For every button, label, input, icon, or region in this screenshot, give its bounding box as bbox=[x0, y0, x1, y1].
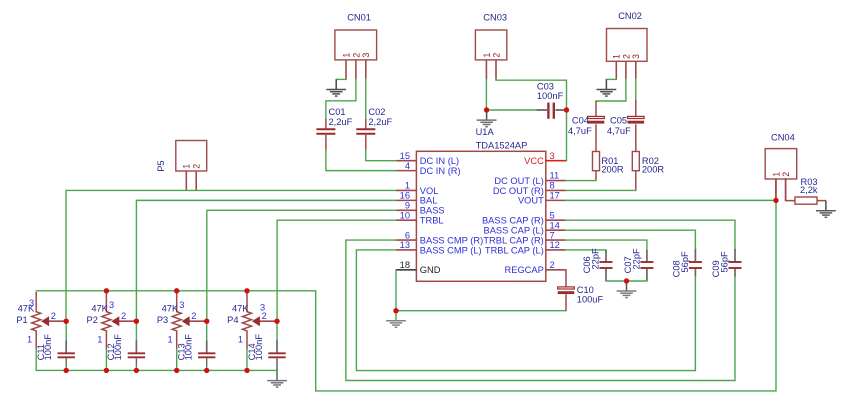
node junction C13 gnd bbox=[204, 368, 209, 373]
U1A pin 10 TRBL stub bbox=[396, 219, 416, 221]
label P5 bbox=[156, 160, 166, 171]
U1A pin number 12 bbox=[550, 240, 560, 250]
svg-text:3: 3 bbox=[109, 300, 114, 310]
U1A pin 6 BASS CMP (R) stub bbox=[396, 239, 416, 241]
U1A pin name DC OUT (L) bbox=[494, 176, 543, 186]
svg-text:56pF: 56pF bbox=[680, 251, 690, 273]
svg-text:C10: C10 bbox=[577, 285, 594, 295]
wire gnd to C10 bbox=[396, 310, 566, 312]
U1A pin 1 VOL stub bbox=[396, 189, 416, 191]
label C08 bbox=[671, 260, 681, 277]
label 47K P2 bbox=[91, 303, 108, 313]
CN04 pin 2 lead bbox=[785, 179, 787, 201]
CN02 pin 1 lead bbox=[615, 61, 617, 79]
ground at CN01 bbox=[326, 79, 346, 96]
svg-text:2,2uF: 2,2uF bbox=[329, 117, 353, 127]
U1A pin 9 BASS stub bbox=[396, 209, 416, 211]
svg-text:200R: 200R bbox=[601, 164, 624, 174]
svg-text:CN03: CN03 bbox=[483, 12, 507, 22]
svg-text:2,2uF: 2,2uF bbox=[368, 117, 392, 127]
svg-text:BASS CAP (R): BASS CAP (R) bbox=[482, 216, 544, 226]
svg-text:22pF: 22pF bbox=[591, 248, 601, 270]
capacitor C04 bbox=[588, 116, 605, 151]
svg-text:9: 9 bbox=[405, 201, 410, 211]
U1A pin name DC OUT (R) bbox=[493, 186, 544, 196]
value 4,7uF bbox=[607, 126, 631, 136]
potentiometer P4 bbox=[243, 292, 278, 349]
label 47K P3 bbox=[162, 303, 179, 313]
svg-text:1: 1 bbox=[168, 334, 173, 344]
U1A pin 13 BASS CMP (L) stub bbox=[396, 249, 416, 251]
wire CN03 pin1 down bbox=[485, 79, 487, 110]
P2 bottom wire bbox=[105, 349, 107, 370]
wire C01 to pin 4 bbox=[326, 150, 396, 171]
U1A pin number 17 bbox=[550, 191, 560, 201]
CN01 pin 3 lead bbox=[365, 60, 367, 80]
svg-text:BASS CAP (L): BASS CAP (L) bbox=[484, 225, 544, 235]
svg-text:11: 11 bbox=[550, 171, 560, 181]
svg-text:100nF: 100nF bbox=[254, 334, 264, 361]
svg-text:DC IN (L): DC IN (L) bbox=[420, 156, 459, 166]
svg-text:7: 7 bbox=[550, 230, 555, 240]
value 200R bbox=[601, 164, 624, 174]
U1A pin 8 DC OUT (R) stub bbox=[546, 189, 566, 191]
U1A pin 2 REGCAP stub bbox=[546, 269, 566, 271]
CN04 pin1 lead to node bbox=[775, 179, 777, 200]
U1A pin 18 GND stub bbox=[396, 269, 416, 271]
wire CN01 pin1 to ground bbox=[336, 78, 346, 80]
P1 pin 1 label bbox=[27, 334, 32, 344]
svg-text:2: 2 bbox=[191, 311, 196, 321]
potentiometer P3 bbox=[172, 292, 207, 349]
ground at R03 bbox=[816, 201, 836, 218]
svg-text:BASS: BASS bbox=[420, 206, 445, 216]
svg-text:2: 2 bbox=[121, 311, 126, 321]
label R01 bbox=[601, 156, 618, 166]
connector CN03 box bbox=[475, 30, 506, 60]
U1A pin 15 DC IN (L) stub bbox=[396, 160, 416, 162]
P2 pin 1 label bbox=[97, 334, 102, 344]
U1A pin number 16 bbox=[400, 191, 410, 201]
svg-text:C02: C02 bbox=[368, 107, 385, 117]
CN01 pin number 1 bbox=[341, 53, 351, 58]
wire CN01 pin2 to C01 bbox=[326, 79, 356, 120]
wire pin 8 to R02 bbox=[566, 189, 636, 191]
P4 pin 3 label bbox=[260, 303, 265, 313]
svg-text:2: 2 bbox=[621, 54, 631, 59]
wire pin2 REGCAP to C10 bbox=[565, 270, 567, 287]
CN03 pin 1 lead bbox=[485, 60, 487, 80]
wire C06-C07 gnd bbox=[606, 280, 647, 282]
value TDA1524AP bbox=[476, 140, 528, 150]
svg-text:1: 1 bbox=[341, 53, 351, 58]
node junction C11 gnd bbox=[63, 368, 68, 373]
svg-text:3: 3 bbox=[179, 300, 184, 310]
label R02 bbox=[642, 156, 659, 166]
label C10 bbox=[577, 285, 594, 295]
svg-text:12: 12 bbox=[550, 240, 560, 250]
wire C02 to pin 15 bbox=[366, 150, 396, 161]
svg-text:VCC: VCC bbox=[524, 156, 544, 166]
capacitor C08 bbox=[689, 249, 702, 277]
svg-text:C05: C05 bbox=[610, 116, 627, 126]
capacitor C09 bbox=[729, 249, 742, 277]
node junction pot top bbox=[244, 288, 249, 293]
capacitor C11 bbox=[58, 341, 75, 367]
svg-text:TRBL: TRBL bbox=[420, 216, 444, 226]
U1A pin number 14 bbox=[550, 220, 560, 230]
CN04 pin2 to R03 bbox=[786, 179, 795, 201]
svg-text:15: 15 bbox=[400, 151, 410, 161]
P3 pin 1 label bbox=[168, 334, 173, 344]
P5 pin 1 lead bbox=[185, 171, 187, 191]
svg-text:DC OUT (R): DC OUT (R) bbox=[493, 186, 544, 196]
label C09 bbox=[711, 260, 721, 277]
P1 pin 2 label bbox=[51, 311, 56, 321]
U1A pin name BASS CMP (R) bbox=[420, 235, 483, 245]
U1A pin 7 TRBL CAP (R) stub bbox=[546, 239, 566, 241]
label CN03 bbox=[483, 12, 507, 22]
wire wiper to C14 bbox=[276, 321, 278, 341]
label C06 bbox=[582, 256, 592, 273]
wire pin 5 to C09 bbox=[566, 220, 735, 249]
wire pin 6 to C09 bottom bbox=[346, 240, 735, 380]
P5 pin number 2 bbox=[192, 164, 202, 169]
svg-text:14: 14 bbox=[550, 220, 560, 230]
svg-text:TDA1524AP: TDA1524AP bbox=[476, 140, 528, 150]
node junction C12 gnd bbox=[134, 368, 139, 373]
U1A pin name DC IN (R) bbox=[420, 166, 461, 176]
svg-text:8: 8 bbox=[550, 181, 555, 191]
U1A pin name BASS CAP (R) bbox=[482, 216, 544, 226]
svg-text:1: 1 bbox=[405, 181, 410, 191]
wire BAL net bbox=[136, 200, 396, 321]
svg-text:CN04: CN04 bbox=[771, 133, 795, 143]
wire TRBL net bbox=[277, 220, 396, 321]
P2 pin 3 label bbox=[109, 300, 114, 310]
svg-text:2: 2 bbox=[491, 53, 501, 58]
svg-text:1: 1 bbox=[771, 172, 781, 177]
R03 right lead bbox=[817, 200, 826, 202]
U1A pin number 18 bbox=[400, 260, 410, 270]
CN03 pin number 1 bbox=[482, 53, 492, 58]
U1A pin number 9 bbox=[405, 201, 410, 211]
U1A pin number 6 bbox=[405, 230, 410, 240]
svg-text:DC IN (R): DC IN (R) bbox=[420, 166, 461, 176]
U1A pin number 10 bbox=[400, 210, 410, 220]
svg-text:2: 2 bbox=[351, 53, 361, 58]
U1A pin number 11 bbox=[550, 171, 560, 181]
wire pin 17 VOUT to CN04 bbox=[566, 199, 776, 201]
U1A pin number 3 bbox=[550, 151, 555, 161]
value 100uF bbox=[577, 295, 604, 305]
U1A pin name TRBL bbox=[420, 216, 444, 226]
wire CN02 pin3 to C05 bbox=[635, 79, 637, 101]
value 22pF bbox=[591, 248, 601, 270]
svg-text:16: 16 bbox=[400, 191, 410, 201]
U1A pin number 7 bbox=[550, 230, 555, 240]
wire pot gnd bus bbox=[36, 369, 277, 371]
U1A pin name VCC bbox=[524, 156, 544, 166]
value 22pF bbox=[631, 248, 641, 270]
CN03 pin number 2 bbox=[491, 53, 501, 58]
U1A pin 5 BASS CAP (R) stub bbox=[546, 219, 566, 221]
label U1A bbox=[476, 127, 495, 137]
U1A pin 16 BAL stub bbox=[396, 199, 416, 201]
value 100nF bbox=[254, 334, 264, 361]
wire wiper to C13 bbox=[206, 321, 208, 341]
R01 bottom lead bbox=[595, 171, 597, 181]
wire pin 13 to C08 bottom bbox=[356, 250, 695, 371]
P1 bottom wire bbox=[35, 349, 37, 370]
wire pin18 to ground bbox=[395, 270, 397, 321]
label CN01 bbox=[347, 12, 371, 22]
P1 pin 3 label bbox=[29, 298, 34, 308]
node junction pot top bbox=[104, 288, 109, 293]
capacitor C03 bbox=[537, 103, 564, 119]
svg-text:56pF: 56pF bbox=[720, 251, 730, 273]
svg-text:CN01: CN01 bbox=[347, 12, 371, 22]
CN02 pin number 2 bbox=[621, 54, 631, 59]
U1A pin name BASS bbox=[420, 206, 445, 216]
wire CN01 pin3 to C02 bbox=[365, 79, 367, 120]
value 100nF bbox=[184, 334, 194, 361]
svg-text:4: 4 bbox=[405, 161, 410, 171]
svg-text:5: 5 bbox=[550, 210, 555, 220]
value 2,2uF bbox=[329, 117, 353, 127]
U1A pin number 5 bbox=[550, 210, 555, 220]
node junction C06 C07 gnd bbox=[624, 278, 629, 283]
wire wiper to C11 bbox=[65, 321, 67, 341]
value 56pF bbox=[680, 251, 690, 273]
R02 bottom lead bbox=[635, 171, 637, 191]
U1A pin name GND bbox=[420, 265, 441, 275]
U1A pin name BASS CAP (L) bbox=[484, 225, 544, 235]
U1A pin 17 VOUT stub bbox=[546, 199, 566, 201]
node junction P3 wiper bbox=[204, 319, 209, 324]
node junction pot bottom bbox=[244, 368, 249, 373]
capacitor C07 bbox=[640, 250, 653, 281]
U1A pin name REGCAP bbox=[505, 265, 544, 275]
svg-text:200R: 200R bbox=[642, 164, 665, 174]
U1A pin name BAL bbox=[420, 196, 438, 206]
label C05 bbox=[610, 116, 627, 126]
label C02 bbox=[368, 107, 385, 117]
value 56pF bbox=[720, 251, 730, 273]
op IC U1A TDA1524AP box bbox=[416, 151, 545, 281]
svg-text:1: 1 bbox=[97, 334, 102, 344]
P4 pin 2 label bbox=[262, 311, 267, 321]
wire VCC node down to pin 3 bbox=[566, 110, 568, 161]
svg-text:P2: P2 bbox=[87, 315, 98, 325]
svg-text:100nF: 100nF bbox=[537, 91, 564, 101]
U1A pin 3 VCC stub bbox=[546, 160, 567, 162]
node junction VOUT bbox=[773, 198, 778, 203]
U1A pin 11 DC OUT (L) stub bbox=[546, 180, 566, 182]
P5 pin 2 lead bbox=[195, 171, 197, 191]
svg-text:P4: P4 bbox=[227, 315, 238, 325]
resistor R02 bbox=[632, 152, 639, 171]
U1A pin name DC IN (L) bbox=[420, 156, 459, 166]
label C07 bbox=[623, 256, 633, 273]
svg-text:TRBL CAP (R): TRBL CAP (R) bbox=[483, 235, 543, 245]
svg-text:3: 3 bbox=[550, 151, 555, 161]
svg-text:10: 10 bbox=[400, 210, 410, 220]
svg-text:REGCAP: REGCAP bbox=[505, 265, 544, 275]
U1A pin number 13 bbox=[400, 240, 410, 250]
CN01 pin 2 lead bbox=[355, 60, 357, 80]
svg-text:2: 2 bbox=[262, 311, 267, 321]
U1A pin name TRBL CAP (L) bbox=[485, 245, 544, 255]
CN04 pin number 2 bbox=[781, 172, 791, 177]
resistor R01 bbox=[593, 152, 600, 171]
CN02 pin 3 lead bbox=[635, 61, 637, 79]
U1A pin name BASS CMP (L) bbox=[420, 245, 482, 255]
svg-text:BASS CMP (L): BASS CMP (L) bbox=[420, 245, 482, 255]
value 200R bbox=[642, 164, 665, 174]
node junction P4 wiper bbox=[274, 319, 279, 324]
value 100nF bbox=[113, 334, 123, 361]
label C14 bbox=[247, 343, 257, 360]
capacitor C02 bbox=[356, 119, 375, 151]
wire wiper to C12 bbox=[135, 321, 137, 341]
svg-text:CN02: CN02 bbox=[618, 11, 642, 21]
label P4 bbox=[227, 315, 238, 325]
P3 pin 3 label bbox=[179, 300, 184, 310]
svg-text:47K: 47K bbox=[91, 303, 108, 313]
svg-text:18: 18 bbox=[400, 260, 410, 270]
label C13 bbox=[177, 343, 187, 360]
svg-text:4,7uF: 4,7uF bbox=[568, 126, 592, 136]
svg-text:100uF: 100uF bbox=[577, 295, 604, 305]
svg-text:2: 2 bbox=[51, 311, 56, 321]
P5 pin number 1 bbox=[182, 164, 192, 169]
wire pin 12 to C06 bbox=[566, 249, 606, 252]
node junction P2 wiper bbox=[134, 319, 139, 324]
label R03 bbox=[801, 177, 818, 187]
label C04 bbox=[572, 116, 589, 126]
value 2,2k bbox=[800, 185, 818, 195]
svg-text:47K: 47K bbox=[162, 303, 179, 313]
svg-text:17: 17 bbox=[550, 191, 560, 201]
label C01 bbox=[329, 107, 346, 117]
capacitor C06 bbox=[600, 250, 613, 281]
connector CN01 box bbox=[335, 30, 377, 60]
node junction pot bottom bbox=[104, 368, 109, 373]
resistor R03 bbox=[795, 197, 817, 204]
capacitor C05 bbox=[628, 100, 645, 152]
node junction IC gnd bbox=[393, 308, 398, 313]
P3 bottom wire bbox=[176, 349, 178, 370]
U1A pin number 2 bbox=[550, 260, 555, 270]
wire C03 right to VCC node bbox=[564, 109, 567, 111]
svg-text:100nF: 100nF bbox=[113, 334, 123, 361]
svg-text:1: 1 bbox=[612, 54, 622, 59]
label CN02 bbox=[618, 11, 642, 21]
connector P5 box bbox=[176, 141, 207, 172]
CN04 pin 1 lead bbox=[775, 179, 777, 201]
svg-text:P5: P5 bbox=[156, 160, 166, 171]
U1A pin name VOL bbox=[420, 186, 439, 196]
wire C12 to gnd bus bbox=[135, 367, 137, 371]
svg-text:VOL: VOL bbox=[420, 186, 439, 196]
svg-text:1: 1 bbox=[27, 334, 32, 344]
svg-text:P3: P3 bbox=[157, 315, 168, 325]
svg-text:4,7uF: 4,7uF bbox=[607, 126, 631, 136]
svg-text:VOUT: VOUT bbox=[518, 196, 544, 206]
P4 pin 1 label bbox=[238, 334, 243, 344]
svg-text:3: 3 bbox=[631, 54, 641, 59]
svg-text:1: 1 bbox=[182, 164, 192, 169]
svg-text:3: 3 bbox=[361, 53, 371, 58]
svg-text:P1: P1 bbox=[16, 315, 27, 325]
svg-text:6: 6 bbox=[405, 230, 410, 240]
svg-text:2: 2 bbox=[550, 260, 555, 270]
svg-text:BAL: BAL bbox=[420, 196, 438, 206]
P3 pin 2 label bbox=[191, 311, 196, 321]
svg-text:U1A: U1A bbox=[476, 127, 495, 137]
connector CN02 box bbox=[607, 29, 648, 62]
potentiometer P2 bbox=[102, 292, 136, 349]
wire C03 left bbox=[489, 109, 538, 111]
svg-text:DC OUT (L): DC OUT (L) bbox=[494, 176, 543, 186]
U1A pin number 1 bbox=[405, 181, 410, 191]
U1A pin number 8 bbox=[550, 181, 555, 191]
svg-text:100nF: 100nF bbox=[43, 334, 53, 361]
capacitor C10 bbox=[558, 287, 575, 311]
ground at C06 C07 bbox=[617, 281, 637, 298]
CN02 pin 2 lead bbox=[625, 61, 627, 79]
wire C11 to gnd bus bbox=[65, 367, 67, 371]
label P1 bbox=[16, 315, 27, 325]
svg-text:C04: C04 bbox=[572, 116, 589, 126]
label CN04 bbox=[771, 133, 795, 143]
svg-text:3: 3 bbox=[29, 298, 34, 308]
capacitor C01 bbox=[316, 119, 335, 151]
svg-text:2: 2 bbox=[781, 172, 791, 177]
svg-text:GND: GND bbox=[420, 265, 441, 275]
label C03 bbox=[537, 82, 554, 92]
node junction pot top bbox=[174, 288, 179, 293]
CN02 pin number 1 bbox=[612, 54, 622, 59]
P2 pin 2 label bbox=[121, 311, 126, 321]
wire pin 14 to C08 bbox=[566, 230, 696, 249]
CN02 pin number 3 bbox=[631, 54, 641, 59]
label C12 bbox=[106, 343, 116, 360]
svg-text:2: 2 bbox=[192, 164, 202, 169]
CN03 pin 2 lead bbox=[495, 60, 497, 80]
CN01 pin number 3 bbox=[361, 53, 371, 58]
U1A pin 4 DC IN (R) stub bbox=[396, 170, 416, 172]
svg-text:TRBL CAP (L): TRBL CAP (L) bbox=[485, 245, 544, 255]
ground at IC bbox=[386, 321, 406, 328]
connector CN04 box bbox=[765, 149, 797, 179]
label 47K P1 bbox=[18, 303, 35, 313]
U1A pin name VOUT bbox=[518, 196, 544, 206]
label C11 bbox=[36, 344, 46, 360]
ground at CN03 bbox=[477, 110, 497, 127]
CN04 pin number 1 bbox=[771, 172, 781, 177]
value 2,2uF bbox=[368, 117, 392, 127]
ground at CN02 bbox=[597, 79, 617, 96]
U1A pin 14 BASS CAP (L) stub bbox=[546, 229, 566, 231]
value 4,7uF bbox=[568, 126, 592, 136]
svg-text:22pF: 22pF bbox=[631, 248, 641, 270]
svg-text:BASS CMP (R): BASS CMP (R) bbox=[420, 235, 483, 245]
node junction P1 wiper bbox=[63, 319, 68, 324]
svg-text:100nF: 100nF bbox=[184, 334, 194, 361]
wire CN03 pin2 to VCC node bbox=[496, 79, 567, 110]
